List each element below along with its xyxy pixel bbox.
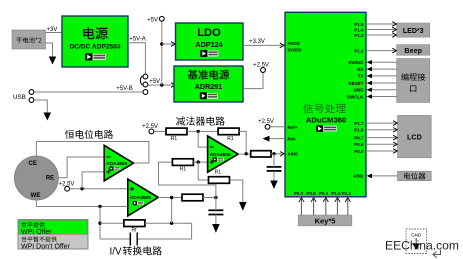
- wire cap branch right: [138, 223, 192, 239]
- wire USB ground stub: [34, 100, 47, 113]
- svg-text:+3.3V: +3.3V: [249, 39, 265, 45]
- junction +2.5V branch: [80, 187, 83, 190]
- resistor R1 ref in: [166, 128, 187, 135]
- svg-text:Ref+: Ref+: [288, 125, 298, 130]
- label 减法器电路: [176, 117, 225, 126]
- potentiometer box 电位器: [398, 171, 432, 181]
- Beep box: [397, 45, 430, 56]
- ground cap out: [215, 215, 217, 225]
- junction AIN0 cap: [272, 152, 275, 155]
- wire Rf right: [145, 222, 192, 224]
- wire +2.5V to R1: [154, 130, 166, 132]
- svg-text:RESET: RESET: [348, 81, 363, 86]
- wire key4 to MCU: [336, 198, 338, 215]
- wire rail to LDO: [162, 43, 173, 45]
- svg-text:LED*3: LED*3: [403, 28, 424, 35]
- resistor R out (I/V): [182, 194, 203, 201]
- resistor R1 feedback: [218, 128, 239, 135]
- svg-text:P0.7: P0.7: [354, 135, 364, 140]
- svg-text:Rf: Rf: [132, 228, 138, 234]
- junction opamp2 out: [170, 196, 173, 199]
- svg-text:P0.3: P0.3: [294, 191, 304, 196]
- LCD box: [398, 115, 432, 157]
- op-amp U2 ADA4505 (potentiostat): [104, 145, 133, 181]
- junction opamp3 out: [245, 152, 248, 155]
- wire +3V battery to power: [46, 32, 63, 34]
- svg-text:GND: GND: [354, 88, 365, 93]
- USB node 1: [29, 90, 34, 95]
- wire +2.5V to opamp2 noninv: [70, 188, 128, 190]
- battery box 干电池*2: [12, 30, 46, 49]
- wire +5V-A: [128, 43, 145, 74]
- svg-text:P1.7: P1.7: [354, 121, 364, 126]
- wire resistor to cap node: [203, 197, 216, 199]
- svg-text:+2.5V: +2.5V: [59, 182, 75, 188]
- svg-text:AIN2: AIN2: [353, 174, 364, 179]
- wire up to subtractor feed: [159, 162, 216, 197]
- wire feedback left riser: [99, 207, 101, 240]
- svg-text:ADA4505: ADA4505: [130, 195, 151, 201]
- svg-text:GND: GND: [411, 233, 422, 238]
- svg-text:ADuCM360: ADuCM360: [306, 116, 347, 125]
- legend text 世平提供: [21, 222, 45, 228]
- svg-text:+2.5V: +2.5V: [142, 124, 158, 130]
- reference box 基准电源 ADR291: [174, 66, 243, 102]
- wire SWDIO to header: [372, 61, 397, 63]
- wire R1 to opamp3 noninv: [193, 161, 207, 163]
- op-amp U4 ADA4505 (subtractor): [208, 136, 239, 172]
- LED box LED*3: [397, 23, 430, 37]
- wire to Rf: [100, 222, 124, 224]
- jumper node bottom (+5V-B): [143, 90, 148, 95]
- svg-text:Key*5: Key*5: [315, 216, 336, 225]
- svg-text:AIN0: AIN0: [288, 152, 299, 157]
- USB node 2: [29, 98, 34, 103]
- svg-text:P0.5: P0.5: [306, 191, 316, 196]
- wire +5V rail vertical: [161, 21, 163, 85]
- label 恒电位电路: [65, 130, 113, 139]
- wire key3 to MCU: [325, 198, 327, 215]
- arrow into reference: [171, 83, 175, 88]
- resistor R AIN0: [251, 151, 271, 157]
- svg-text:USB: USB: [13, 94, 26, 101]
- svg-text:+2.5V: +2.5V: [258, 119, 274, 125]
- wire WE to opamp2 inverting: [36, 200, 127, 207]
- node +5V top: [159, 16, 164, 21]
- wire SWCLK to header: [372, 96, 397, 98]
- resistor R1 gnd leg: [209, 177, 230, 184]
- wire +5V-B: [34, 91, 143, 93]
- resistor R1 input (subtractor +): [172, 159, 193, 166]
- junction Rf-output riser: [170, 222, 173, 225]
- junction inv node: [197, 130, 200, 133]
- GND symbol legend box: [406, 229, 427, 254]
- wire P1.2 to Beep: [366, 50, 395, 52]
- svg-text:R1: R1: [171, 136, 178, 142]
- junction Rf left: [98, 222, 101, 225]
- svg-text:+2.5V: +2.5V: [253, 63, 269, 69]
- wire P1.6 to LCD: [366, 129, 395, 131]
- svg-text:+5V: +5V: [147, 17, 158, 23]
- watermark return arrow: [433, 250, 441, 258]
- wire GND to header: [372, 89, 397, 91]
- wire TX to header: [372, 75, 397, 77]
- wire R1 to inv node: [187, 130, 218, 132]
- svg-text:Ref-: Ref-: [288, 136, 297, 141]
- wire branch to opamp1 noninv: [82, 172, 104, 189]
- wire CE feedback loop: [36, 142, 148, 164]
- capacitor C feedback: [129, 233, 131, 246]
- capacitor C out: [208, 209, 223, 211]
- legend box WPI: [18, 220, 88, 250]
- svg-text:RE: RE: [46, 175, 54, 181]
- svg-text:WPI Offer: WPI Offer: [21, 229, 52, 236]
- svg-text:P0.0: P0.0: [354, 149, 364, 154]
- wire P1.3 to LED: [366, 34, 395, 36]
- ground subtractor: [239, 202, 247, 211]
- wire to AIN0: [271, 153, 282, 155]
- svg-text:ADR291: ADR291: [195, 82, 223, 91]
- svg-text:P1.4: P1.4: [354, 27, 364, 32]
- resistor Rf: [124, 220, 145, 227]
- wire P1.4 to LED: [366, 29, 395, 31]
- wire key2 to MCU: [313, 198, 315, 215]
- ground AIN0 cap: [273, 171, 275, 181]
- wire cap left: [100, 238, 130, 240]
- capacitor C AIN0: [267, 166, 282, 168]
- svg-text:P1.3: P1.3: [354, 33, 364, 38]
- wire reference output +2.5V: [243, 73, 263, 89]
- Key box Key*5: [298, 215, 352, 226]
- jumper arc: [140, 76, 142, 85]
- wire output down riser: [171, 198, 173, 224]
- arrow into AVDD: [280, 43, 284, 48]
- svg-text:WPI Don’t Offer: WPI Don’t Offer: [21, 244, 71, 251]
- LDO box ADP124: [176, 23, 244, 60]
- svg-text:P0.6: P0.6: [354, 142, 364, 147]
- svg-text:R1: R1: [227, 136, 234, 142]
- junction noninv node: [197, 160, 200, 163]
- wire +3.3V LDO to MCU: [243, 44, 282, 46]
- MCU ADI logo: [316, 125, 337, 132]
- wire Ref- out: [270, 138, 285, 140]
- junction cap node: [214, 196, 217, 199]
- wire inv node down: [198, 131, 207, 147]
- svg-text:+5V: +5V: [149, 79, 160, 85]
- wire RX to header: [372, 68, 397, 70]
- electrode circle: [14, 156, 58, 200]
- svg-text:EEChina.com: EEChina.com: [385, 238, 459, 252]
- MCU block 信号处理 ADuCM360: [285, 12, 366, 197]
- junction WE-feedback: [98, 205, 101, 208]
- node +2.5V reference out: [261, 68, 266, 73]
- svg-text:P1.0: P1.0: [331, 191, 341, 196]
- wire P0.6 to LCD: [366, 143, 395, 145]
- svg-text:I/V: I/V: [110, 247, 122, 258]
- wire battery ground stub: [46, 43, 53, 57]
- wire opamp3 out: [238, 153, 250, 155]
- svg-text:TX: TX: [358, 74, 364, 79]
- wire opamp2 out: [158, 197, 182, 199]
- wire RE to opamp1 inverting: [58, 157, 104, 178]
- programming header box 编程接口: [397, 59, 430, 103]
- svg-text:SWDIO: SWDIO: [348, 60, 364, 65]
- wire +5V jumper to rail: [148, 84, 173, 86]
- wire Ref+ in: [270, 126, 284, 128]
- svg-text:WE: WE: [31, 193, 41, 199]
- svg-text:RX: RX: [357, 67, 363, 72]
- jumper node middle (+5V): [143, 82, 148, 87]
- wire RESET to header: [372, 82, 397, 84]
- svg-text:ADP124: ADP124: [195, 40, 222, 49]
- wire node to R1 gnd leg: [198, 162, 208, 180]
- svg-text:LCD: LCD: [407, 132, 422, 141]
- svg-text:+5V-A: +5V-A: [129, 37, 146, 43]
- node +2.5V Ref+: [265, 124, 270, 129]
- MCU title 信号处理: [303, 103, 346, 113]
- junction rail-ref: [160, 83, 163, 86]
- svg-text:ADA4505: ADA4505: [210, 152, 231, 158]
- arrow into LDO: [171, 42, 175, 47]
- legend text 世平暂不提供: [21, 236, 57, 242]
- wire P0.7 to LCD: [366, 137, 395, 139]
- svg-text:+5V-B: +5V-B: [116, 86, 133, 92]
- wire P1.7 to LCD: [366, 122, 395, 124]
- svg-text:AVDD: AVDD: [288, 41, 301, 46]
- svg-text:R1: R1: [215, 170, 222, 176]
- op-amp U3 ADA4505 (I/V converter): [128, 179, 159, 216]
- svg-text:R1: R1: [180, 167, 187, 173]
- svg-text:P1.1: P1.1: [342, 191, 352, 196]
- svg-text:P1.2: P1.2: [354, 48, 364, 53]
- power supply box U? 电源 DC/DC ADP2503: [62, 16, 128, 67]
- svg-text:LDO: LDO: [197, 27, 221, 39]
- wire key5 to MCU: [347, 198, 349, 215]
- svg-text:P1.5: P1.5: [354, 22, 364, 27]
- wire P0.0 to LCD: [366, 150, 395, 152]
- wire P1.5 to LED: [366, 23, 395, 25]
- wire feedback to output: [239, 131, 246, 153]
- arrow Ref-: [263, 136, 270, 142]
- wire key1 to MCU: [300, 198, 302, 215]
- svg-text:Beep: Beep: [404, 46, 422, 55]
- node +2.5V subtractor: [149, 129, 154, 134]
- svg-text:P1.6: P1.6: [354, 128, 364, 133]
- junction rail-LDO: [160, 42, 163, 45]
- svg-text:SWCLK: SWCLK: [347, 94, 364, 99]
- svg-text:P0.4: P0.4: [319, 191, 329, 196]
- svg-text:ADA4505: ADA4505: [106, 161, 127, 167]
- svg-text:CE: CE: [29, 161, 37, 167]
- ground battery: [49, 57, 57, 65]
- arrow into AIN0: [280, 152, 284, 157]
- wire AIN2 from potentiometer: [372, 175, 398, 177]
- wire R1 to ground: [230, 180, 243, 202]
- svg-text:DC/DC ADP2503: DC/DC ADP2503: [69, 43, 120, 50]
- node +2.5V cell: [65, 186, 70, 191]
- jumper node top (+5V-A): [143, 74, 148, 79]
- ground USB: [44, 113, 52, 121]
- svg-text:IOVDD: IOVDD: [288, 48, 303, 53]
